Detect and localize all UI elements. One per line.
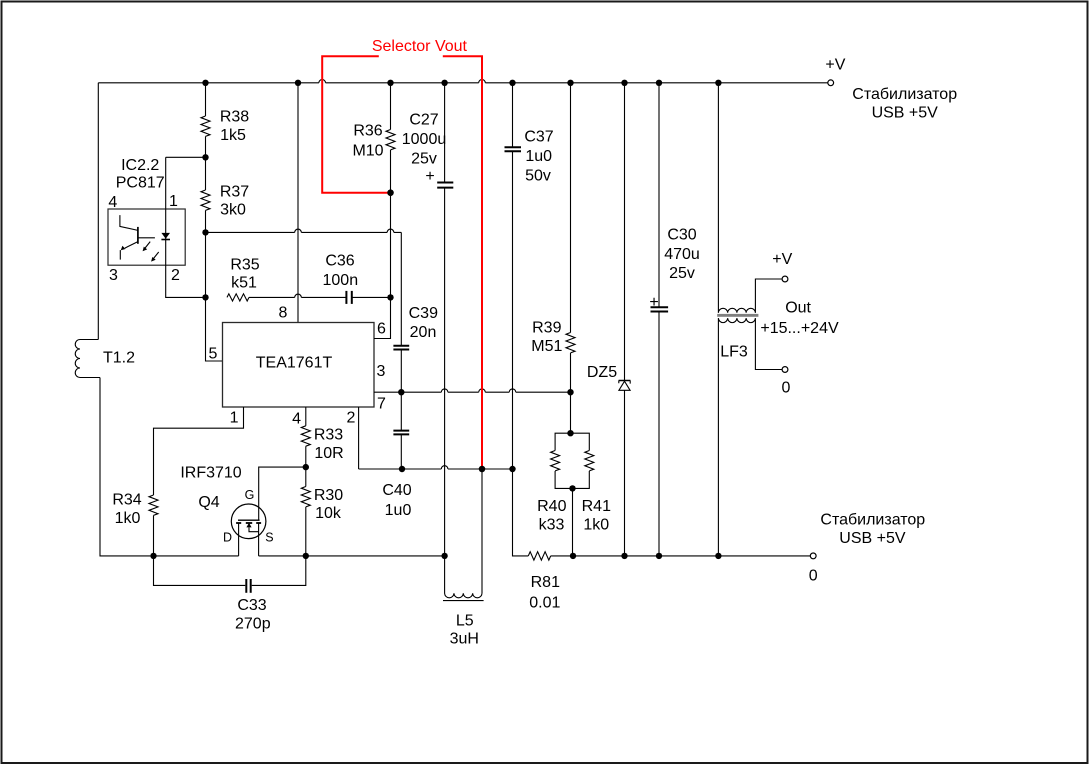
svg-text:M10: M10 [352,142,383,159]
svg-text:0: 0 [809,568,818,585]
wire to optocoupler pin1 [166,156,206,158]
wire drain rail [150,555,238,557]
wire C37 column [513,83,529,556]
svg-text:L5: L5 [456,613,474,630]
svg-text:G: G [245,488,255,502]
svg-text:C36: C36 [325,252,354,269]
svg-text:270p: 270p [235,615,271,632]
svg-text:R40: R40 [537,498,566,515]
node R40/R41 top [567,430,573,436]
svg-text:4: 4 [292,411,301,428]
node source rail junctions [303,553,309,559]
svg-text:DZ5: DZ5 [587,364,617,381]
resistor R41 [571,433,590,488]
svg-text:0: 0 [782,379,791,396]
capacitor C27 [437,182,453,184]
resistor R35 [227,294,249,301]
svg-text:1k5: 1k5 [220,127,246,144]
svg-text:1k0: 1k0 [583,517,609,534]
node drain rail junction [150,553,156,559]
svg-text:+: + [425,168,434,185]
svg-text:T1.2: T1.2 [103,349,135,366]
svg-text:0.01: 0.01 [529,595,560,612]
terminal +V output [828,80,834,86]
resistor R33 [305,407,307,426]
node C40 bottom junction [399,466,405,472]
svg-text:C33: C33 [237,597,266,614]
svg-text:2: 2 [347,409,356,426]
svg-text:C30: C30 [667,227,696,244]
diode DZ5 [624,83,626,556]
wire pin 7 rail [374,391,571,393]
wire R37 bottom to node [205,210,207,232]
terminal Out +V [782,276,788,282]
svg-text:20n: 20n [410,324,437,341]
wire R35 to C36 [249,296,346,298]
wire C36 to R36 column [352,296,391,298]
optocoupler IC2.2 PC817 [108,157,206,297]
resistor R81 [528,552,550,560]
svg-text:S: S [265,530,273,544]
capacitor C33 [154,556,306,586]
svg-text:6: 6 [377,321,386,338]
svg-text:10R: 10R [314,445,343,462]
inductor LF3 [717,83,782,556]
svg-text:1: 1 [169,193,178,210]
svg-text:R38: R38 [220,109,249,126]
capacitor C30 [658,83,660,556]
wire left branch from top rail to T1.2 [97,83,99,340]
node pin2 rail junctions [479,466,485,472]
wire R39 node down to R40/R41 [570,392,572,433]
svg-text:R41: R41 [582,498,611,515]
svg-text:R30: R30 [314,487,343,504]
node R39 bottom junction [567,389,573,395]
svg-text:Q4: Q4 [198,494,219,511]
svg-text:Selector Vout: Selector Vout [372,38,468,55]
node R38/R37 junction [202,154,208,160]
node pin7/C39 junction [398,389,404,395]
svg-text:M51: M51 [531,338,562,355]
svg-text:8: 8 [278,305,287,322]
svg-text:3k0: 3k0 [220,202,246,219]
svg-text:LF3: LF3 [720,344,748,361]
svg-text:3uH: 3uH [450,630,479,647]
inductor L5 [445,469,482,598]
resistor R37 [201,190,210,210]
node R37 bottom junction [202,229,208,235]
svg-text:25v: 25v [411,150,437,167]
node top rail junctions [202,80,721,86]
svg-text:R36: R36 [353,123,382,140]
svg-text:25v: 25v [669,265,695,282]
wire pin 2 rail [358,407,360,469]
node red/pin2-rail junction (redraw atop red) [479,466,485,472]
svg-text:3: 3 [377,363,386,380]
svg-text:1k0: 1k0 [115,510,141,527]
resistor R36 [390,83,392,130]
wire gate [259,467,306,520]
capacitor C36 [345,291,347,304]
node C36/pin6 junction [387,294,393,300]
wire C27 column [444,83,446,556]
svg-text:50v: 50v [525,167,551,184]
wire R37 top [205,157,207,190]
svg-text:5: 5 [208,346,217,363]
svg-text:7: 7 [377,395,386,412]
svg-text:3: 3 [109,267,118,284]
svg-text:1u0: 1u0 [525,148,552,165]
wire R38 top rail to zigzag [205,83,207,116]
node gate junction [303,464,309,470]
svg-text:+15...+24V: +15...+24V [760,320,839,337]
svg-text:Стабилизатор: Стабилизатор [852,86,957,103]
ic TEA1761T [223,323,375,408]
resistor R40 [555,433,572,488]
svg-text:Out: Out [785,300,811,317]
wire pin 1 to R34 [154,407,244,495]
svg-text:k33: k33 [539,517,565,534]
selector red wire left [322,56,390,192]
svg-text:4: 4 [108,194,117,211]
node R81 right junction [570,553,576,559]
svg-text:1000u: 1000u [402,131,447,148]
svg-text:R35: R35 [230,256,259,273]
node R36/selector junction (redraw atop red) [387,190,393,196]
svg-text:Стабилизатор: Стабилизатор [820,512,925,529]
svg-text:R37: R37 [220,183,249,200]
svg-text:D: D [223,530,232,544]
svg-text:470u: 470u [664,246,700,263]
wire R36 column to C36 node and pin 6 [374,193,391,339]
wire pin8 column [297,83,299,323]
node R40/R41 bottom [569,485,575,491]
svg-text:+: + [649,294,658,311]
selector red wire right [443,56,482,469]
node R36 bottom / selector junction [387,190,393,196]
svg-text:IC2.2: IC2.2 [121,157,159,174]
svg-text:2: 2 [171,267,180,284]
svg-text:100n: 100n [323,272,359,289]
resistor R34 [149,495,158,515]
transistor Q4 IRF3710 [231,504,266,556]
wire top +V rail [98,82,828,84]
capacitor C37 [505,146,522,148]
svg-text:USB +5V: USB +5V [872,104,939,121]
svg-text:R39: R39 [532,319,561,336]
node R35 left junction [202,294,208,300]
svg-text:C37: C37 [524,129,553,146]
wire source rail [259,555,445,557]
svg-text:R34: R34 [112,491,141,508]
capacitor C39 [393,345,409,347]
svg-text:C39: C39 [409,305,438,322]
svg-text:k51: k51 [231,275,257,292]
transformer T1.2 [75,340,100,378]
resistor R38 [201,116,210,136]
svg-text:+V: +V [825,57,845,74]
svg-text:C27: C27 [409,111,438,128]
svg-text:USB +5V: USB +5V [839,530,906,547]
wire R-column down to R35 node [206,232,223,361]
wire feedback row to C39 column [206,231,402,233]
terminal Out 0 [782,367,788,373]
svg-text:PC817: PC817 [116,174,165,191]
svg-text:R33: R33 [314,426,343,443]
svg-text:C40: C40 [382,482,411,499]
resistor R39 [570,83,572,333]
svg-text:+V: +V [772,251,792,268]
resistor R30 [305,467,307,486]
wire R38 to node [205,136,207,157]
wire T1.2 bottom to drain rail [100,378,150,556]
terminal 0 output [810,553,816,559]
node 0 rail junctions [621,553,627,559]
wire 0 rail [573,555,810,557]
svg-text:TEA1761T: TEA1761T [256,354,333,371]
svg-text:10k: 10k [315,505,342,522]
svg-text:1: 1 [230,409,239,426]
svg-text:IRF3710: IRF3710 [180,464,241,481]
svg-text:R81: R81 [531,574,560,591]
capacitor C40 [393,430,409,432]
svg-text:1u0: 1u0 [385,502,412,519]
